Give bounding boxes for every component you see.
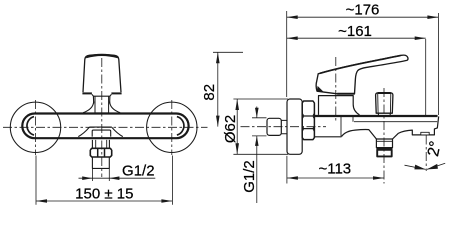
right dome flare (110, 102, 121, 113)
knob base band (378, 113, 390, 116)
spout tip face front view (92, 130, 111, 137)
front view vertical centerline (101, 58, 103, 177)
stem extension lines (92, 168, 109, 181)
shower outlet lower block (377, 150, 392, 157)
diverter/shower axis (383, 88, 385, 184)
left dome flare (83, 102, 94, 113)
svg-text:2°: 2° (425, 140, 445, 158)
lever bottom thick edge (337, 93, 354, 95)
2 degree angle arrows (405, 163, 446, 169)
150 dimension extension lines (36, 156, 172, 205)
body internal edge (340, 117, 342, 137)
spout underside right of outlet and aerator (393, 117, 439, 140)
diverter knob (376, 93, 393, 113)
dim 82 line (217, 52, 219, 126)
right wall flange circle (147, 102, 197, 152)
svg-text:G1/2: G1/2 (122, 163, 155, 180)
outlet flare front view (78, 127, 123, 137)
spout root edge line (352, 117, 354, 122)
dim G1/2 side extensions (252, 118, 267, 136)
dim ~161 extension right (425, 39, 427, 116)
wall nut side view (302, 101, 314, 140)
handle bottom edge left (82, 92, 92, 94)
lever handle side view (316, 55, 408, 94)
dim ~113 wall extension (286, 156, 288, 184)
shower outlet separation band (376, 147, 392, 149)
svg-text:Ø62: Ø62 (222, 115, 239, 143)
left flange circle centerline (35, 100, 37, 155)
spout underside swoop (342, 130, 377, 139)
shower outlet washer line (376, 140, 392, 142)
left wall flange circle (10, 102, 60, 152)
dim Ø62 extension lines (233, 99, 288, 154)
lever heel dark wedge (317, 86, 325, 93)
side view horizontal centerline (241, 126, 327, 128)
svg-text:~113: ~113 (318, 161, 351, 178)
outlet hex nut front view (90, 148, 111, 157)
dim ~176 line (287, 16, 439, 18)
neck lip line (93, 95, 110, 97)
cartridge axis side view (335, 57, 337, 121)
handle bottom edge right (111, 92, 121, 94)
dim ~176 extension right (437, 13, 439, 115)
wall flange side view (287, 99, 302, 154)
body bottom edge (314, 136, 341, 138)
outlet stem (92, 157, 109, 168)
outlet neck inner lines (96, 140, 107, 149)
left body end cap arc (27, 117, 34, 136)
aerator axis (425, 136, 427, 172)
dim ~176 extension left (286, 11, 288, 97)
dim ~113 line (287, 177, 384, 179)
neck bottom bar (95, 112, 109, 114)
nut facet lines (98, 149, 105, 157)
svg-text:~176: ~176 (346, 2, 380, 19)
150 dimension line (36, 200, 172, 202)
dim G1/2 side arrows and line (256, 107, 258, 204)
dim Ø62 line (236, 99, 238, 154)
fitting neck rings (281, 120, 287, 133)
shower outlet upper block (376, 139, 392, 148)
right body end cap arc (177, 117, 184, 136)
dim ~161 line (287, 37, 426, 39)
body capsule front view (22, 114, 188, 139)
cartridge dome side view (319, 96, 360, 115)
front view horizontal centerline (3, 126, 208, 128)
knob top thick edge (378, 92, 391, 94)
right flange circle centerline (171, 100, 173, 155)
dim 82 extension top (213, 51, 243, 53)
G1/2 dimension front (79, 177, 156, 179)
aerator insert tab (421, 132, 429, 135)
cartridge neck front view (92, 94, 112, 103)
knob inner side lines (378, 93, 391, 113)
body top / spout top edge (314, 115, 437, 117)
svg-text:150 ± 15: 150 ± 15 (75, 186, 133, 203)
handle top thick edge (86, 55, 118, 57)
lever blade top thick edge (320, 56, 401, 74)
svg-text:~161: ~161 (338, 23, 372, 40)
svg-text:82: 82 (201, 84, 218, 101)
outlet neck below body (92, 140, 109, 149)
spout top inner line (354, 121, 437, 123)
neck inner lines (95, 96, 109, 113)
G1/2 inlet fitting (267, 118, 281, 135)
svg-text:G1/2: G1/2 (241, 160, 258, 193)
nut facet lines (302, 116, 314, 129)
handle front view (83, 55, 121, 92)
